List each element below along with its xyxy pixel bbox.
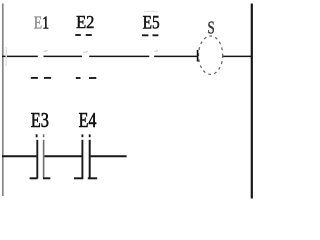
contact E4 ticks bbox=[81, 134, 83, 137]
contact E5 ticks bbox=[142, 34, 159, 36]
ghost artifact above E5 label bbox=[144, 11, 158, 13]
contact E2 feet bbox=[76, 77, 97, 79]
contact E4 bars bbox=[81, 140, 83, 179]
wire rung1 seg3 bbox=[89, 55, 149, 57]
svg-text:E3: E3 bbox=[31, 109, 49, 132]
coil S ellipse bbox=[199, 36, 223, 74]
wire rung1 seg1 bbox=[2, 55, 38, 57]
coil S left edge dark arc bbox=[197, 50, 199, 62]
svg-text:E4: E4 bbox=[79, 109, 97, 133]
svg-text:E5: E5 bbox=[143, 12, 160, 33]
ghost artifact in E2 gap bbox=[83, 52, 88, 53]
contact E3 ticks bbox=[36, 134, 38, 137]
contact E2 ticks bbox=[75, 34, 92, 36]
contact E3 bars bbox=[36, 140, 38, 179]
contact E3 feet bbox=[30, 177, 38, 179]
ghost artifact above E1 gap bbox=[44, 51, 48, 52]
svg-text:E1: E1 bbox=[34, 13, 49, 33]
contact E4 feet bbox=[74, 177, 83, 179]
wire rung2 seg2 bbox=[44, 155, 81, 157]
left rail bbox=[2, 4, 4, 197]
wire rung2 seg1 bbox=[2, 155, 36, 157]
wire rung1 seg5 bbox=[222, 55, 251, 57]
wire rung2 seg3 bbox=[91, 155, 127, 157]
contact E1 feet bbox=[31, 77, 51, 79]
wire rung1 seg4 bbox=[154, 55, 197, 57]
wire rung1 seg2 bbox=[44, 55, 83, 57]
ghost artifact near left rail bbox=[5, 47, 7, 66]
svg-text:S: S bbox=[208, 19, 215, 39]
ghost artifact above E5 gap bbox=[155, 50, 159, 53]
right rail bbox=[251, 4, 253, 199]
svg-text:E2: E2 bbox=[76, 11, 94, 32]
